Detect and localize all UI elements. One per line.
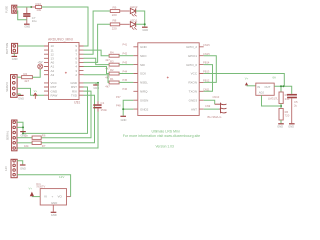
- svg-text:12V: 12V: [59, 175, 64, 179]
- svg-text:GND: GND: [18, 96, 24, 100]
- svg-text:VI: VI: [44, 195, 47, 199]
- svg-text:P43: P43: [123, 60, 128, 64]
- svg-text:V+: V+: [29, 187, 33, 191]
- svg-text:R7: R7: [42, 144, 46, 148]
- svg-text:+5V: +5V: [38, 60, 43, 64]
- svg-text:Ultimate LRS Mini: Ultimate LRS Mini: [152, 130, 180, 134]
- svg-text:LED1: LED1: [130, 19, 138, 23]
- svg-text:SERVO: SERVO: [5, 82, 9, 91]
- svg-text:4k7: 4k7: [105, 85, 110, 89]
- svg-text:GND2: GND2: [140, 107, 149, 111]
- svg-text:U$1: U$1: [74, 100, 80, 104]
- svg-text:C1: C1: [101, 101, 105, 105]
- svg-text:P47: P47: [116, 95, 121, 99]
- svg-text:VCC: VCC: [191, 72, 198, 76]
- svg-text:RAW: RAW: [51, 93, 58, 97]
- svg-text:CN15: CN15: [203, 43, 210, 47]
- svg-text:R1: R1: [110, 77, 114, 81]
- svg-text:R2: R2: [23, 72, 27, 76]
- svg-text:R10: R10: [36, 2, 42, 6]
- svg-text:GND: GND: [12, 57, 18, 61]
- svg-text:GPIO_2: GPIO_2: [186, 45, 197, 49]
- svg-text:V+: V+: [34, 89, 38, 93]
- svg-text:SERIAL: SERIAL: [6, 130, 10, 140]
- svg-text:GND: GND: [51, 213, 57, 217]
- svg-text:GND: GND: [140, 45, 148, 49]
- svg-text:150n: 150n: [101, 108, 108, 112]
- svg-text:720: 720: [285, 113, 290, 117]
- svg-text:CN10: CN10: [213, 95, 220, 99]
- svg-text:P48: P48: [116, 103, 121, 107]
- svg-text:GPIO_0: GPIO_0: [186, 63, 197, 67]
- svg-text:R4: R4: [110, 50, 114, 54]
- svg-text:2u: 2u: [294, 104, 298, 108]
- svg-text:FUSE: FUSE: [5, 6, 9, 13]
- svg-text:VO: VO: [58, 195, 63, 199]
- svg-text:GND: GND: [121, 118, 127, 122]
- svg-text:R6: R6: [42, 133, 46, 137]
- svg-text:P45: P45: [123, 78, 128, 82]
- svg-text:6A: 6A: [273, 76, 277, 80]
- svg-text:R2: R2: [110, 68, 114, 72]
- svg-text:NSEL: NSEL: [140, 81, 148, 85]
- svg-text:GPIO1: GPIO1: [188, 54, 198, 58]
- svg-text:P46: P46: [123, 87, 128, 91]
- svg-text:IN: IN: [257, 85, 260, 89]
- svg-text:GND: GND: [24, 25, 30, 29]
- svg-text:CN9: CN9: [205, 104, 211, 108]
- svg-text:12V: 12V: [4, 166, 8, 171]
- svg-text:For more information visit www: For more information visit www.dluxembou…: [123, 134, 201, 138]
- svg-text:V+: V+: [245, 76, 249, 80]
- svg-text:220: 220: [112, 13, 117, 17]
- svg-text:BU-SMA-G: BU-SMA-G: [208, 115, 222, 119]
- svg-text:GND: GND: [20, 166, 26, 170]
- svg-text:P41: P41: [123, 43, 128, 47]
- svg-text:Version 1.03: Version 1.03: [156, 145, 174, 149]
- svg-text:TXON: TXON: [189, 90, 197, 94]
- svg-text:10u: 10u: [32, 19, 37, 23]
- svg-text:A3: A3: [51, 73, 55, 77]
- svg-text:SDO: SDO: [140, 54, 147, 58]
- svg-text:BUTTON: BUTTON: [5, 43, 9, 54]
- svg-text:LED2: LED2: [130, 5, 138, 9]
- svg-text:R9: R9: [113, 5, 117, 9]
- svg-text:P44: P44: [123, 69, 128, 73]
- svg-text:GND: GND: [142, 28, 148, 32]
- svg-text:R3: R3: [110, 59, 114, 63]
- svg-text:+: +: [52, 195, 54, 199]
- svg-text:LM317L: LM317L: [268, 96, 279, 100]
- svg-text:10k: 10k: [24, 144, 29, 148]
- svg-text:ADJ: ADJ: [259, 90, 265, 94]
- svg-text:7805TV: 7805TV: [36, 185, 45, 189]
- svg-text:P42: P42: [123, 52, 128, 56]
- svg-text:4k7: 4k7: [24, 79, 29, 83]
- svg-text:GND3: GND3: [189, 98, 198, 102]
- svg-text:R8: R8: [113, 19, 117, 23]
- svg-text:GND: GND: [51, 201, 57, 205]
- svg-text:SXDN: SXDN: [140, 98, 148, 102]
- svg-text:OUT: OUT: [265, 85, 271, 89]
- svg-text:SCK: SCK: [140, 72, 146, 76]
- svg-text:GND: GND: [288, 125, 294, 129]
- svg-text:SDI: SDI: [140, 63, 145, 67]
- svg-text:10k: 10k: [36, 8, 41, 12]
- svg-text:220: 220: [112, 27, 117, 31]
- svg-text:ANT: ANT: [191, 107, 197, 111]
- svg-text:NIRQ: NIRQ: [140, 90, 148, 94]
- svg-text:RXON: RXON: [188, 81, 197, 85]
- svg-text:TXD: TXD: [71, 93, 78, 97]
- svg-text:GND: GND: [277, 125, 283, 129]
- svg-text:ARDUINO_MINI: ARDUINO_MINI: [48, 38, 73, 42]
